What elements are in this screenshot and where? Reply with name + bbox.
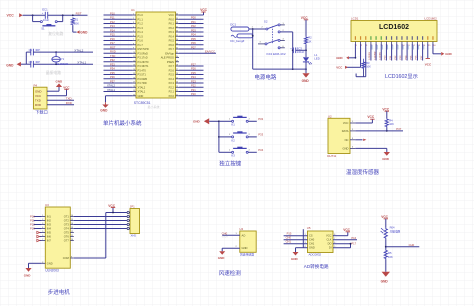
svg-text:10K: 10K: [389, 122, 394, 126]
svg-text:22: 22: [176, 90, 178, 92]
svg-text:TXD: TXD: [35, 98, 41, 102]
svg-text:25: 25: [176, 77, 178, 79]
svg-text:C1: C1: [29, 48, 33, 52]
net label P37: [396, 127, 401, 131]
wire VCC to EC1: [23, 14, 46, 16]
wire mcu VCC pin: [179, 12, 204, 15]
uln output wires to JP1: [74, 217, 127, 229]
svg-text:VCC: VCC: [343, 121, 349, 125]
svg-text:R3: R3: [366, 61, 370, 65]
svg-text:单片机最小系统: 单片机最小系统: [103, 119, 142, 127]
svg-text:Y1: Y1: [61, 57, 65, 61]
svg-text:7: 7: [133, 39, 134, 41]
svg-text:ADC0832: ADC0832: [309, 252, 322, 256]
svg-text:LCD1: LCD1: [351, 17, 359, 21]
relay S2: [258, 20, 285, 49]
mcu U1 pin stubs: [133, 14, 179, 97]
net label P34: [258, 148, 263, 152]
svg-text:P37: P37: [110, 79, 115, 83]
wire R1 to GND: [73, 26, 77, 33]
power port VCC (photoresistor): [381, 215, 388, 219]
svg-text:P20: P20: [191, 92, 196, 96]
svg-text:风速检测: 风速检测: [219, 269, 242, 277]
svg-text:8: 8: [42, 262, 43, 264]
wire mcu GND pin: [106, 96, 133, 102]
net label P32: [258, 117, 263, 121]
svg-text:C2: C2: [29, 60, 33, 64]
svg-text:10uF: 10uF: [43, 18, 50, 22]
resistor R5: [384, 250, 393, 260]
power port VCC (mcu): [200, 8, 207, 12]
svg-text:P1.5: P1.5: [138, 34, 144, 38]
svg-text:27: 27: [176, 69, 178, 71]
wire dht NC stub: [355, 139, 366, 141]
svg-text:GND: GND: [218, 256, 226, 260]
svg-text:1K: 1K: [308, 39, 311, 43]
svg-text:6: 6: [133, 35, 134, 37]
ground port GND (crystal): [6, 62, 21, 67]
svg-text:IN3: IN3: [47, 223, 52, 227]
svg-text:DHT11: DHT11: [327, 154, 336, 158]
svg-text:GND: GND: [336, 56, 342, 60]
svg-text:P03: P03: [191, 28, 196, 32]
net label RST: [76, 12, 82, 16]
wire dht GND: [355, 148, 387, 152]
svg-text:EA/Vpp: EA/Vpp: [165, 51, 174, 55]
svg-text:100uF: 100uF: [297, 50, 305, 54]
grey note crystal circuit: [46, 70, 61, 75]
svg-text:14: 14: [133, 69, 135, 71]
connector JP1: [127, 205, 140, 238]
svg-text:P1.4: P1.4: [138, 30, 144, 34]
svg-text:TXD: TXD: [110, 54, 115, 58]
svg-text:P14: P14: [110, 28, 115, 32]
wire key K1 left: [219, 120, 232, 122]
svg-text:P12: P12: [110, 20, 115, 24]
svg-text:21: 21: [176, 94, 178, 96]
svg-text:RXD: RXD: [110, 50, 116, 54]
svg-text:最小系统: 最小系统: [148, 104, 160, 109]
power ground GND (wind): [218, 251, 226, 260]
svg-text:P17: P17: [110, 41, 115, 45]
svg-text:7: 7: [42, 239, 43, 241]
label wind speed detection: [219, 269, 242, 277]
svg-text:P33: P33: [110, 62, 115, 66]
svg-text:P33: P33: [258, 133, 263, 137]
svg-text:P2.7: P2.7: [169, 64, 175, 68]
svg-text:DC_beng#: DC_beng#: [230, 39, 244, 43]
LED L1: [303, 53, 320, 64]
svg-text:10K: 10K: [388, 255, 393, 259]
lcd module LCD1 body: [351, 17, 437, 42]
wire R5 to GND: [385, 260, 387, 272]
svg-text:3: 3: [42, 223, 43, 225]
driver U3 ULN2003 body: [45, 203, 70, 272]
svg-text:GND: GND: [291, 257, 299, 261]
svg-text:IN7: IN7: [47, 239, 52, 243]
svg-text:R04: R04: [390, 225, 395, 229]
lcd data wires with rotated labels: [369, 44, 424, 61]
power port VCC (lcd left): [336, 66, 348, 70]
wire VCC to R2: [305, 20, 307, 37]
ground port GND (reset): [77, 30, 88, 34]
wire lcd BLA to VCC: [427, 44, 429, 59]
resistor R3: [362, 59, 371, 77]
svg-text:VCC: VCC: [35, 94, 41, 98]
svg-text:P1.0: P1.0: [138, 13, 144, 17]
svg-text:40: 40: [176, 14, 178, 16]
svg-text:GND: GND: [242, 246, 248, 250]
sensor U4 body: [239, 227, 256, 256]
net label XTAL1: [77, 61, 86, 65]
connector DC1 pin2: [231, 34, 253, 38]
wire gnd to caps: [21, 52, 31, 64]
svg-text:19: 19: [133, 90, 135, 92]
wire switch branch right: [57, 15, 62, 21]
svg-text:28: 28: [176, 65, 178, 67]
svg-text:CH0: CH0: [222, 232, 228, 236]
svg-text:U1: U1: [131, 8, 135, 12]
svg-text:P2.1: P2.1: [169, 90, 175, 94]
svg-text:U5: U5: [307, 226, 311, 230]
svg-text:16: 16: [71, 215, 73, 217]
svg-text:P22: P22: [191, 84, 196, 88]
svg-text:P16: P16: [351, 236, 356, 240]
wire U4 GND: [222, 246, 240, 251]
svg-text:光敏电阻: 光敏电阻: [390, 230, 401, 234]
svg-text:JP1: JP1: [130, 205, 135, 209]
svg-text:P0.2: P0.2: [169, 26, 175, 30]
svg-text:26: 26: [176, 73, 178, 75]
svg-text:GND: GND: [47, 261, 53, 265]
svg-text:S1: S1: [41, 27, 45, 31]
wire key K3 right: [248, 151, 256, 153]
key K1: [229, 116, 251, 127]
mcu left wires with net labels: [104, 11, 133, 83]
svg-text:P04: P04: [191, 33, 196, 37]
uln pin stubs: [42, 215, 74, 264]
svg-text:CS: CS: [309, 234, 313, 238]
svg-text:16: 16: [133, 77, 135, 79]
adc left wires with net labels: [284, 232, 308, 244]
resistor R1: [71, 18, 79, 26]
svg-text:15: 15: [71, 219, 73, 221]
mcu U1 body: [131, 8, 176, 98]
capacitor EC1: [42, 8, 50, 22]
svg-text:38: 38: [176, 22, 178, 24]
capacitor EC3: [290, 47, 306, 54]
svg-text:P15: P15: [287, 232, 292, 236]
wire adc CLK: [333, 239, 357, 241]
keys bus wire: [209, 120, 220, 152]
ground port GND (lcd): [336, 56, 349, 60]
svg-text:P3.7RD: P3.7RD: [138, 81, 147, 85]
resistor R2: [304, 36, 312, 45]
svg-text:VCC: VCC: [336, 66, 343, 70]
wire P4 pin1 to GND: [47, 87, 59, 91]
svg-text:IN5: IN5: [47, 231, 52, 235]
wire adc DO DI tied: [333, 243, 351, 248]
svg-text:PSEN: PSEN: [167, 60, 174, 64]
svg-text:RST: RST: [110, 45, 116, 49]
svg-text:VCC: VCC: [7, 14, 15, 18]
net label TXD: [66, 96, 72, 100]
svg-text:P0.5: P0.5: [169, 39, 175, 43]
svg-text:GND: GND: [80, 31, 88, 35]
svg-text:P0.0: P0.0: [169, 17, 175, 21]
mcu P0 wires with net labels: [179, 16, 204, 50]
svg-text:电源电路: 电源电路: [254, 73, 277, 81]
svg-text:DI: DI: [329, 246, 332, 250]
svg-text:LCD1602: LCD1602: [425, 17, 438, 21]
switch S1: [40, 21, 57, 31]
svg-text:P3.3INT1: P3.3INT1: [138, 64, 150, 68]
grey note reset circuit: [48, 31, 63, 36]
svg-text:20: 20: [133, 94, 135, 96]
dht pin stubs: [350, 121, 355, 148]
label download port: [35, 108, 48, 115]
svg-text:6: 6: [42, 235, 43, 237]
svg-text:ULN2003: ULN2003: [45, 268, 59, 272]
svg-text:ALE PROG: ALE PROG: [161, 56, 174, 60]
svg-text:XTAL2: XTAL2: [138, 85, 146, 89]
svg-text:9: 9: [133, 48, 134, 50]
svg-text:CH0: CH0: [286, 236, 292, 240]
wire dht DATA: [355, 130, 403, 132]
svg-text:P3.0RxD: P3.0RxD: [138, 51, 149, 55]
svg-text:晶振电路: 晶振电路: [46, 70, 61, 75]
svg-text:3: 3: [133, 22, 134, 24]
svg-text:24: 24: [176, 82, 178, 84]
ground port GND (keys): [193, 118, 209, 124]
svg-text:P27: P27: [191, 62, 196, 66]
label power circuit: [254, 73, 277, 81]
svg-text:CLK: CLK: [326, 238, 331, 242]
net label P33: [258, 133, 263, 137]
svg-text:KF2 ED8-4X2: KF2 ED8-4X2: [267, 52, 286, 56]
svg-text:34: 34: [176, 39, 178, 41]
svg-text:VCC: VCC: [169, 13, 175, 17]
svg-text:GND: GND: [381, 279, 389, 283]
svg-text:P2.0: P2.0: [169, 94, 175, 98]
adc vertical wire: [302, 229, 304, 248]
svg-text:P3.2INT0: P3.2INT0: [138, 60, 150, 64]
svg-text:OT4: OT4: [64, 227, 70, 231]
svg-text:P25: P25: [191, 71, 196, 75]
svg-text:P1.7: P1.7: [138, 43, 144, 47]
svg-text:P2.6: P2.6: [169, 68, 175, 72]
svg-text:P13: P13: [110, 24, 115, 28]
svg-text:12: 12: [71, 231, 73, 233]
svg-text:P35: P35: [110, 71, 115, 75]
svg-text:P3.6WR: P3.6WR: [138, 77, 148, 81]
svg-text:23: 23: [176, 86, 178, 88]
svg-text:GND: GND: [309, 246, 315, 250]
svg-text:39: 39: [176, 18, 178, 20]
svg-text:4: 4: [42, 227, 43, 229]
svg-text:P11: P11: [30, 218, 35, 222]
wire relay contact to cap rail: [280, 32, 294, 69]
key K3: [229, 147, 251, 158]
svg-text:CH1: CH1: [309, 242, 315, 246]
svg-text:R2: R2: [308, 36, 312, 40]
svg-text:P24: P24: [191, 75, 196, 79]
mcu U1 pin names: [138, 13, 175, 98]
svg-text:36: 36: [176, 31, 178, 33]
svg-text:P32: P32: [110, 58, 115, 62]
svg-text:GND: GND: [35, 89, 41, 93]
svg-text:P10: P10: [30, 214, 35, 218]
svg-text:P11: P11: [110, 16, 115, 20]
svg-text:RXD: RXD: [66, 101, 72, 105]
svg-text:P26: P26: [191, 67, 196, 71]
resistor R4: [385, 111, 394, 131]
lcd pin stubs and numbers: [355, 42, 436, 48]
svg-text:GND: GND: [100, 108, 108, 112]
wire EA/Vpp: [179, 50, 216, 54]
label independent keys: [219, 159, 242, 167]
wire DC1 pin1 to relay: [249, 27, 266, 30]
svg-text:10K: 10K: [74, 21, 79, 25]
svg-text:CH0: CH0: [409, 243, 415, 247]
svg-text:P37: P37: [396, 127, 401, 131]
capacitor C1: [29, 48, 41, 55]
power ground GND (photoresistor): [381, 272, 390, 284]
svg-text:8: 8: [133, 43, 134, 45]
svg-text:P0.3: P0.3: [169, 30, 175, 34]
svg-text:30P: 30P: [35, 48, 40, 52]
power ground GND (mcu): [100, 102, 108, 112]
svg-text:P0.4: P0.4: [169, 34, 175, 38]
svg-text:VCC: VCC: [425, 62, 432, 66]
svg-text:DO: DO: [328, 242, 332, 246]
svg-text:XTAL2: XTAL2: [74, 49, 83, 53]
svg-text:VOUT: VOUT: [222, 236, 229, 238]
svg-text:CH0: CH0: [309, 238, 315, 242]
svg-text:2: 2: [133, 18, 134, 20]
wire key K2 right: [248, 136, 256, 138]
svg-text:P07: P07: [191, 45, 196, 49]
svg-text:LCDRW: LCDRW: [374, 51, 376, 60]
svg-text:R4: R4: [389, 118, 393, 122]
svg-text:U2: U2: [328, 115, 332, 119]
svg-text:P1.2: P1.2: [138, 22, 144, 26]
wire C1 to XTAL2: [33, 51, 93, 53]
net label P17: [351, 241, 356, 245]
svg-text:13: 13: [133, 65, 135, 67]
svg-text:EA/VCC: EA/VCC: [205, 50, 215, 54]
svg-text:P36: P36: [110, 75, 115, 79]
svg-text:RXD: RXD: [35, 103, 41, 107]
net label XTAL2: [74, 49, 83, 53]
svg-text:OT5: OT5: [64, 231, 70, 235]
svg-text:XTAL1: XTAL1: [77, 61, 86, 65]
svg-text:P23: P23: [191, 79, 196, 83]
net label CH0 (wind): [222, 232, 229, 239]
svg-text:P16: P16: [110, 37, 115, 41]
wire LED to GND: [305, 62, 307, 73]
wire R04 to node CH0: [385, 239, 419, 249]
svg-text:P2.3: P2.3: [169, 81, 175, 85]
power port VCC (dht): [367, 115, 374, 119]
svg-text:RST: RST: [76, 12, 82, 16]
power ground GND (adc): [291, 252, 299, 261]
power port VCC (stepper): [108, 204, 115, 208]
svg-text:33: 33: [176, 43, 178, 45]
wire XTAL1 to mcu: [104, 88, 133, 92]
wire lcd BLK to GND: [433, 44, 441, 54]
wire VCC to R04: [385, 219, 387, 228]
svg-text:12: 12: [133, 60, 135, 62]
svg-text:P1.6: P1.6: [138, 39, 144, 43]
svg-text:30P: 30P: [35, 60, 40, 64]
svg-text:P06: P06: [191, 41, 196, 45]
wire switch branch left: [33, 15, 41, 21]
svg-text:下载口: 下载口: [35, 108, 48, 115]
svg-text:2: 2: [42, 219, 43, 221]
svg-text:1: 1: [133, 14, 134, 16]
adc U5 ADC0832 body: [307, 226, 333, 256]
svg-text:GND: GND: [445, 52, 451, 56]
svg-text:P32: P32: [258, 117, 263, 121]
svg-text:S2: S2: [264, 20, 268, 24]
wire lcd VDD to VCC: [345, 44, 360, 67]
wire U4 A0: [222, 233, 240, 235]
svg-text:4: 4: [133, 26, 134, 28]
svg-text:31: 31: [176, 52, 178, 54]
svg-text:1: 1: [42, 215, 43, 217]
svg-text:GND: GND: [193, 120, 201, 124]
wire key K3 left: [219, 151, 232, 153]
svg-text:LCD1602: LCD1602: [379, 24, 409, 31]
svg-text:VCC: VCC: [382, 107, 389, 111]
power port VCC (lcd right): [425, 59, 432, 67]
wire lcd VO loop: [356, 44, 366, 77]
power ground GND (dht): [382, 152, 390, 161]
svg-text:CH1: CH1: [286, 240, 292, 244]
svg-text:P3.5T1: P3.5T1: [138, 73, 147, 77]
svg-text:TXD: TXD: [66, 96, 72, 100]
svg-text:10: 10: [133, 52, 135, 54]
svg-text:29: 29: [176, 60, 178, 62]
svg-text:DC1: DC1: [230, 23, 236, 27]
svg-text:P2.4: P2.4: [169, 77, 175, 81]
svg-text:P2.5: P2.5: [169, 73, 175, 77]
svg-text:P13: P13: [30, 226, 35, 230]
power port VCC (adc): [343, 228, 350, 232]
svg-text:IN1: IN1: [47, 215, 52, 219]
label stepper motor: [48, 288, 71, 296]
net label P16: [351, 236, 356, 240]
svg-text:11: 11: [71, 235, 73, 237]
svg-text:30: 30: [176, 56, 178, 58]
svg-text:P34: P34: [110, 67, 115, 71]
net label CH0 (divider): [409, 243, 415, 247]
svg-text:COM: COM: [63, 256, 69, 260]
label LCD1602 display: [385, 73, 418, 80]
wire dht VCC: [355, 119, 372, 123]
wire adc GND: [296, 248, 308, 252]
svg-text:P15: P15: [110, 33, 115, 37]
uln unused input stubs: [37, 231, 42, 241]
svg-text:P10: P10: [110, 11, 115, 15]
svg-text:VCC: VCC: [326, 234, 332, 238]
svg-text:P00: P00: [191, 16, 196, 20]
label MCU minimal system: [103, 119, 142, 127]
label STC89C51: [134, 101, 160, 109]
wire adc VCC: [333, 232, 348, 236]
svg-text:DATA: DATA: [342, 129, 349, 133]
